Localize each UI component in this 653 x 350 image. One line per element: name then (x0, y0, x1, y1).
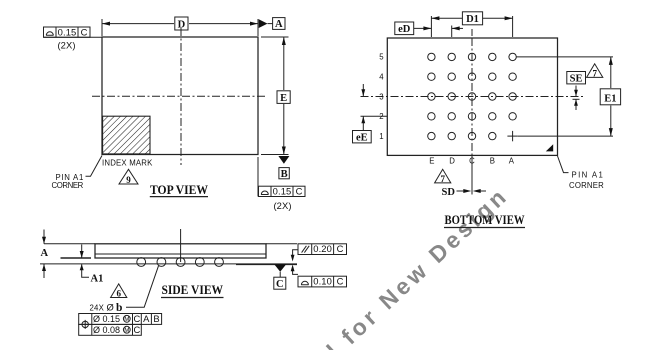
svg-text:Ø 0.08: Ø 0.08 (93, 325, 120, 335)
parallelism frame 0.20 C (291, 243, 347, 261)
profile frame bottom-right (0.15 C) (259, 186, 306, 197)
svg-text:2: 2 (379, 112, 384, 121)
side view center ball axis (180, 229, 182, 262)
column labels (429, 157, 514, 166)
note triangle 7 (SD) (435, 169, 451, 184)
note triangle 7 (SE) (587, 64, 603, 79)
SE dimension (573, 86, 580, 111)
dimension label D (175, 17, 188, 30)
svg-text:CORNER: CORNER (52, 181, 84, 190)
title SIDE VIEW (161, 283, 224, 297)
svg-text:C: C (276, 279, 284, 290)
note triangle 6 (111, 284, 127, 299)
side view substrate line (95, 253, 266, 255)
svg-text:4: 4 (379, 73, 384, 82)
svg-text:C: C (133, 313, 140, 324)
pin A1 corner label (bottom view) (558, 156, 605, 190)
svg-text:C: C (337, 243, 344, 254)
svg-text:D: D (178, 19, 186, 30)
svg-text:b: b (116, 302, 122, 314)
svg-text:C: C (133, 324, 140, 335)
svg-text:D1: D1 (466, 14, 479, 25)
title TOP VIEW (150, 183, 209, 197)
pin A1 corner label (top view) (52, 156, 103, 191)
svg-text:eE: eE (356, 132, 368, 143)
svg-text:PIN A1: PIN A1 (572, 171, 604, 180)
svg-text:B: B (281, 169, 288, 180)
dimension eD leader and arrows (414, 26, 463, 30)
dimension E line with arrows (282, 37, 286, 155)
svg-text:0.10: 0.10 (313, 276, 332, 287)
row 1 extension line (518, 135, 613, 137)
dimension label SE (567, 72, 586, 85)
svg-text:C: C (81, 26, 88, 37)
position tolerance frame (79, 313, 162, 335)
dimension A1 extension line (61, 257, 92, 259)
eD extension lines (431, 16, 512, 37)
svg-text:0.20: 0.20 (313, 243, 332, 254)
dimension A extension line (44, 243, 95, 245)
svg-text:Ø: Ø (107, 302, 114, 313)
title BOTTOM VIEW (444, 213, 525, 227)
top surface extension right (266, 243, 297, 245)
datum C symbol (274, 264, 286, 290)
svg-text:A1: A1 (91, 273, 104, 284)
side view body outline (95, 244, 266, 258)
SD dimension arrows (457, 189, 487, 193)
svg-text:A: A (143, 313, 150, 324)
dimension D extension lines (102, 19, 258, 36)
dimension D1 line with arrows (431, 16, 512, 20)
svg-text:1: 1 (379, 132, 384, 141)
svg-text:5: 5 (379, 53, 384, 62)
bottom view horizontal centerline (row 3) (361, 96, 586, 98)
svg-text:A: A (275, 19, 283, 30)
dimension label E1 (600, 89, 620, 105)
svg-text:B: B (153, 313, 159, 324)
dimension label D1 (462, 12, 482, 25)
dimension A arrows and label (41, 230, 49, 279)
profile frame 0.10 C (291, 265, 347, 287)
dimension label SD (442, 187, 456, 198)
seating plane line (40, 263, 297, 265)
svg-text:E: E (280, 93, 287, 104)
ball A1 cross (507, 131, 517, 141)
top view horizontal centerline (92, 95, 268, 97)
svg-text:SIDE VIEW: SIDE VIEW (162, 283, 224, 297)
watermark (322, 182, 514, 350)
bottom view vertical centerline (column C) (471, 29, 473, 195)
svg-text:0.15: 0.15 (273, 186, 292, 197)
svg-text:M: M (124, 327, 129, 334)
svg-text:3: 3 (379, 92, 384, 101)
dimension label eE (353, 131, 372, 144)
svg-text:B: B (490, 157, 495, 166)
svg-text:C: C (296, 186, 303, 197)
svg-text:6: 6 (116, 288, 121, 298)
(2X) under top-left frame (57, 40, 75, 51)
svg-text:SE: SE (570, 73, 583, 84)
bottom view package outline (387, 38, 557, 155)
svg-text:A: A (509, 157, 515, 166)
index mark (hatched) (103, 116, 150, 154)
profile frame top-left (0.15 C) (44, 26, 103, 37)
svg-text:eD: eD (398, 24, 411, 35)
svg-text:TOP VIEW: TOP VIEW (150, 183, 208, 197)
top view package outline (102, 37, 258, 155)
svg-text:(2X): (2X) (273, 200, 291, 211)
svg-text:E1: E1 (604, 93, 616, 104)
svg-text:BOTTOM VIEW: BOTTOM VIEW (445, 213, 525, 227)
dimension E1 line with arrows (609, 57, 613, 136)
svg-text:C: C (469, 157, 475, 166)
svg-text:9: 9 (126, 175, 131, 185)
(2X) under bottom-right frame (273, 200, 291, 211)
dimension E extension lines (261, 37, 289, 155)
svg-text:SD: SD (442, 187, 456, 198)
svg-text:7: 7 (440, 174, 445, 184)
svg-text:C: C (337, 276, 344, 287)
svg-text:7: 7 (592, 68, 597, 78)
right edge extension down (257, 157, 259, 197)
datum B symbol (278, 156, 289, 180)
side view balls (137, 258, 224, 267)
svg-text:M: M (124, 316, 129, 323)
svg-text:CORNER: CORNER (569, 181, 604, 190)
dimension label E (277, 91, 290, 104)
24X ball diameter callout (90, 266, 159, 314)
svg-text:INDEX MARK: INDEX MARK (102, 158, 153, 167)
dimension D line with arrows (102, 22, 258, 26)
pin A1 corner chamfer triangle (546, 144, 553, 151)
dimension A1 arrows and label (80, 245, 104, 285)
svg-text:24X: 24X (90, 303, 105, 312)
svg-text:0.15: 0.15 (58, 26, 77, 37)
row 5 extension line (517, 56, 614, 58)
top view vertical centerline (180, 28, 182, 165)
svg-text:E: E (429, 157, 434, 166)
svg-text:(2X): (2X) (57, 40, 75, 51)
svg-text:D: D (449, 157, 455, 166)
row labels (379, 53, 384, 141)
index mark label (102, 158, 153, 167)
svg-text:A: A (41, 248, 49, 259)
revision triangle 9 (119, 169, 138, 185)
svg-text:Ø 0.15: Ø 0.15 (93, 314, 120, 324)
eE dimension (361, 84, 388, 131)
ball grid (428, 53, 517, 140)
dimension label eD (395, 22, 414, 35)
datum A symbol (259, 18, 285, 31)
